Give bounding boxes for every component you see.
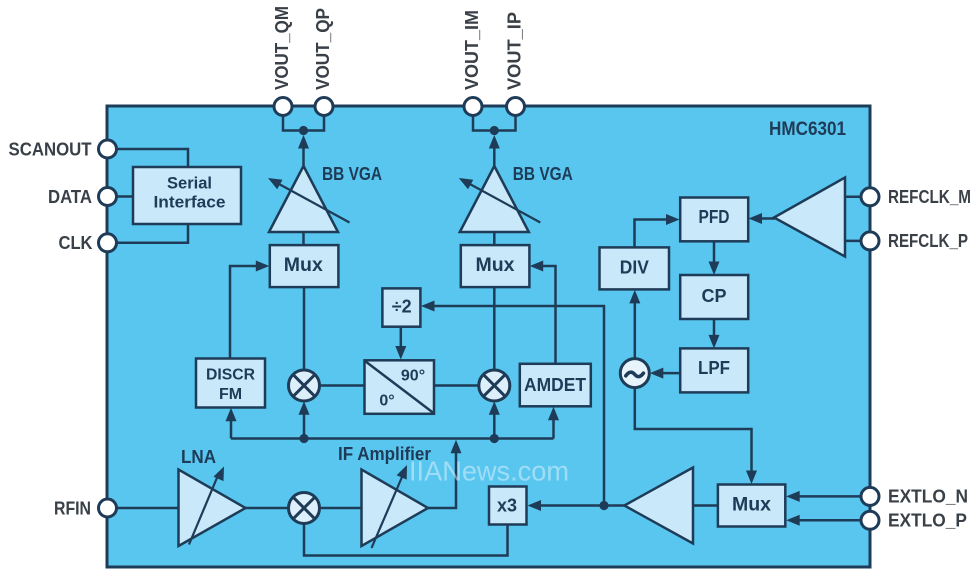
wire EXTLO_N to Mux LO <box>792 495 862 498</box>
port EXTLO_N <box>861 487 879 505</box>
node junction IF bus I <box>490 434 499 443</box>
wire BBVGA I base to Mux I <box>493 232 496 245</box>
amplifier LO buffer <box>624 468 693 544</box>
wire LNA to RF mixer <box>246 507 289 510</box>
block Mux Q <box>270 245 339 287</box>
port VOUT_IP <box>507 98 525 116</box>
svg-text:SCANOUT: SCANOUT <box>9 139 92 159</box>
wire DATA to Serial Interface <box>116 195 133 198</box>
svg-text:HMC6301: HMC6301 <box>769 119 846 140</box>
wire Mux Q to mixer Q <box>303 287 306 370</box>
svg-text:Mux: Mux <box>284 255 323 276</box>
amplifier REFCLK buffer <box>774 178 845 257</box>
mixer RF <box>289 493 320 524</box>
wire IF bus arrow into DISCR FM <box>230 414 233 439</box>
chip boundary HMC6301 <box>107 106 870 567</box>
svg-text:RFIN: RFIN <box>54 498 91 518</box>
port REFCLK_M <box>861 188 879 206</box>
svg-text:DATA: DATA <box>48 187 92 207</box>
wire AMDET to Mux I <box>536 266 556 364</box>
wire IF bus arrow into mixer Q <box>303 407 306 439</box>
block Serial Interface <box>133 167 241 224</box>
wire IF amplifier output to IF bus <box>428 445 456 508</box>
wire RFIN to LNA <box>116 507 179 510</box>
block AMDET <box>520 364 591 407</box>
svg-text:LNA: LNA <box>181 447 216 467</box>
wire EXTLO_P to Mux LO <box>792 519 862 522</box>
block DIV <box>600 247 670 289</box>
block DISCR FM <box>196 359 265 408</box>
wire VOUT_QM stub <box>283 114 324 131</box>
oscillator VCO <box>620 359 649 388</box>
port RFIN <box>99 499 117 517</box>
svg-text:IIANews.com: IIANews.com <box>409 456 569 487</box>
block CP <box>680 275 748 319</box>
svg-text:90°: 90° <box>401 368 425 385</box>
block quadrature splitter 90/0 <box>365 360 435 414</box>
svg-text:Serial: Serial <box>167 173 212 192</box>
port CLK <box>99 234 117 252</box>
svg-text:PFD: PFD <box>699 207 730 227</box>
block Mux LO <box>718 485 785 527</box>
svg-text:EXTLO_N: EXTLO_N <box>888 487 968 507</box>
wire VOUT_IM stub <box>473 114 516 131</box>
block divide-by-2 <box>382 288 420 326</box>
node junction IF bus Q <box>299 434 308 443</box>
wire Mux I to mixer I <box>493 287 496 370</box>
svg-text:x3: x3 <box>497 496 517 516</box>
svg-text:VOUT_IP: VOUT_IP <box>505 12 525 90</box>
wire quad splitter to mixer I <box>434 384 479 387</box>
svg-text:0°: 0° <box>379 393 394 410</box>
svg-text:Interface: Interface <box>154 193 226 212</box>
wire SCANOUT to Serial Interface <box>116 149 188 167</box>
svg-text:DISCR: DISCR <box>206 367 255 384</box>
port VOUT_QM <box>274 98 292 116</box>
svg-text:Mux: Mux <box>732 495 771 516</box>
wire LO buffer to junction <box>604 504 624 507</box>
block PFD <box>680 198 748 242</box>
svg-text:EXTLO_P: EXTLO_P <box>888 511 967 531</box>
wire IF bus arrow into AMDET <box>552 413 555 439</box>
svg-text:FM: FM <box>219 386 242 403</box>
wire BBVGA I output arrow <box>493 141 496 166</box>
svg-text:REFCLK_M: REFCLK_M <box>888 187 971 207</box>
wire div2 input from LO line <box>427 306 604 506</box>
port VOUT_QP <box>315 98 333 116</box>
block LPF <box>680 348 748 392</box>
wire REFCLK_M to buffer <box>845 196 862 199</box>
wire BBVGA Q output arrow <box>302 141 305 166</box>
svg-text:VOUT_IM: VOUT_IM <box>462 10 482 90</box>
svg-text:÷2: ÷2 <box>392 296 412 316</box>
port REFCLK_P <box>861 232 879 250</box>
wire REFCLK_P to buffer <box>845 240 862 243</box>
port EXTLO_P <box>861 511 879 529</box>
wire RF mixer to IF amplifier <box>320 507 362 510</box>
wire DIV to PFD <box>635 220 675 248</box>
wire x3 to RF mixer LO path <box>304 524 508 556</box>
block Mux I <box>461 245 530 287</box>
wire DISCR FM to Mux Q <box>230 266 262 359</box>
port DATA <box>99 188 117 206</box>
wire REFCLK buffer to PFD <box>753 217 775 220</box>
wire IF bus <box>231 437 554 440</box>
wire CLK to Serial Interface <box>116 224 188 243</box>
svg-text:Mux: Mux <box>476 255 515 276</box>
wire BBVGA Q base to Mux Q <box>302 232 305 245</box>
svg-text:VOUT_QM: VOUT_QM <box>272 6 292 90</box>
svg-text:DIV: DIV <box>620 257 649 277</box>
node junction Q output <box>299 126 308 135</box>
node junction I output <box>490 126 499 135</box>
amplifier LNA <box>179 470 246 547</box>
amplifier IF Amplifier <box>362 470 429 547</box>
wire IF bus arrow into mixer I <box>493 407 496 439</box>
svg-text:VOUT_QP: VOUT_QP <box>313 8 333 90</box>
svg-text:BB VGA: BB VGA <box>322 164 382 184</box>
wire CP to LPF <box>713 319 716 336</box>
svg-text:CP: CP <box>701 286 726 306</box>
port SCANOUT <box>99 140 117 158</box>
mixer Q <box>289 370 320 401</box>
amplifier BB VGA Q <box>269 166 338 232</box>
wire LO to x3 arrow <box>533 504 604 507</box>
svg-text:LPF: LPF <box>698 358 730 378</box>
block x3 multiplier <box>489 487 527 525</box>
wire div2 to quad splitter <box>400 327 403 348</box>
wire PFD to CP <box>713 241 716 263</box>
wire Mux LO to LO buffer <box>693 504 718 507</box>
port VOUT_IM <box>464 98 482 116</box>
svg-text:CLK: CLK <box>59 233 93 253</box>
wire VCO to Mux LO <box>635 388 752 479</box>
node junction LO line <box>599 501 608 510</box>
mixer I <box>479 370 510 401</box>
wire mixer Q to quad splitter <box>320 384 366 387</box>
amplifier BB VGA I <box>460 166 529 232</box>
svg-text:REFCLK_P: REFCLK_P <box>888 231 968 251</box>
svg-text:AMDET: AMDET <box>524 375 586 395</box>
wire VCO to DIV <box>634 295 637 359</box>
wire LPF to VCO <box>655 372 680 375</box>
svg-text:BB VGA: BB VGA <box>513 164 573 184</box>
